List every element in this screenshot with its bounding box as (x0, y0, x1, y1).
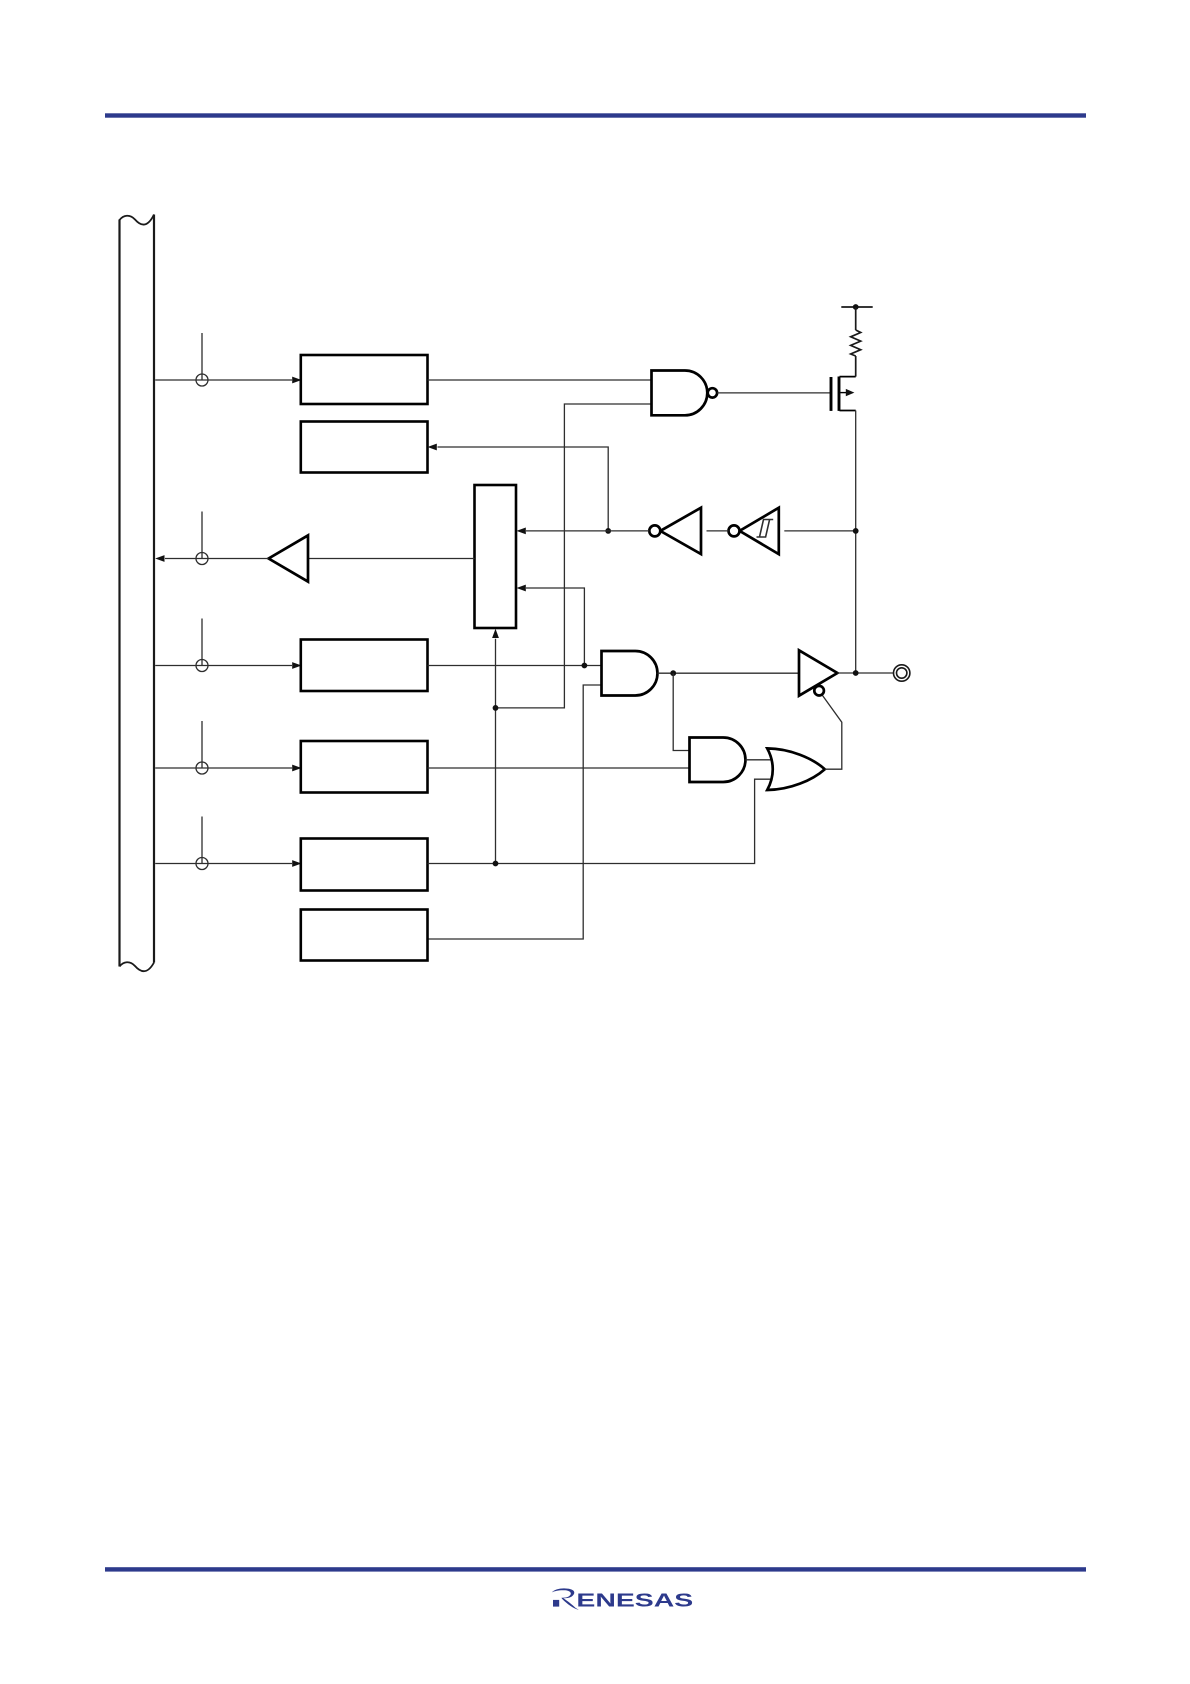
wire: bus to register 4 (155, 767, 292, 769)
wire: register 5 branch up to multiplexer bottom (495, 639, 497, 864)
register 5 (301, 839, 428, 891)
wire: register 5 output to OR gate lower input (428, 779, 773, 863)
junction: AND 1 output branch (670, 670, 676, 676)
wire: AND 2 output to OR gate (746, 759, 773, 761)
Schmitt trigger inverter (729, 508, 779, 554)
wire: bus to register 3 (155, 665, 292, 667)
junction: inverter output / register 2 branch (605, 528, 611, 534)
AND gate 1 (602, 651, 658, 696)
read buffer (269, 535, 308, 581)
wire: NAND lower input from node below (496, 404, 652, 708)
inverter (649, 508, 701, 554)
wire: feedback to register 2 (438, 447, 609, 531)
wire: bus to register 1 (155, 379, 292, 381)
wire: read buffer to bus (165, 558, 269, 560)
register 3 (301, 640, 428, 692)
NAND gate (652, 371, 718, 416)
node: bus tap 1 (196, 333, 208, 386)
junction: register 5 output branch (493, 861, 499, 867)
junction: NAND feed branch (493, 705, 499, 711)
I/O pin pad (894, 665, 910, 681)
multiplexer (475, 485, 517, 628)
register 4 (301, 741, 428, 793)
wire: AND 1 output down to AND gate 2 (673, 673, 689, 750)
junction: pin feedback branch (853, 528, 859, 534)
wire: OR output to output buffer enable (822, 695, 842, 770)
register 1 (301, 355, 428, 404)
power rail (841, 306, 872, 308)
wire: NAND output to MOSFET gate (717, 392, 830, 394)
wire: bus to register 5 (155, 863, 292, 865)
register 2 (301, 422, 428, 473)
resistor (pull-up) (851, 330, 861, 356)
wire: AND 1 output to output buffer (658, 672, 800, 674)
Renesas logo (552, 1588, 693, 1610)
register 6 (301, 910, 428, 961)
transistor Q1 (pull-up MOS) (831, 377, 856, 411)
wire: MOSFET source down to pin line (855, 411, 857, 674)
wire: rail to resistor (855, 307, 857, 330)
junction: pin line (853, 670, 859, 676)
wire: register 3 node up to multiplexer input 2 (526, 588, 584, 666)
wire: resistor to MOSFET drain (855, 356, 857, 377)
wire: pin line to Schmitt trigger input (784, 530, 855, 532)
wire: multiplexer output to read buffer (308, 558, 475, 560)
wire: Schmitt to inverter (707, 530, 729, 532)
wire: inverter output to multiplexer input 1 (526, 530, 649, 532)
node: bus tap 4 (196, 721, 208, 774)
AND gate 2 (690, 738, 746, 783)
junction: power rail (853, 304, 859, 310)
svg-text:ENESAS: ENESAS (576, 1589, 693, 1610)
OR gate (767, 748, 825, 790)
hysteresis mark (757, 520, 774, 538)
node: bus tap 2 (196, 512, 208, 565)
footer rule (105, 1567, 1086, 1571)
node: bus tap 5 (196, 817, 208, 870)
junction: register 3 output branch (582, 663, 588, 669)
internal data bus (120, 215, 155, 972)
wire: register 3 output to AND gate 1 (428, 665, 602, 667)
node: bus tap 3 (196, 619, 208, 672)
wire: output buffer to pin (837, 672, 893, 674)
wire: register 4 output to AND gate 2 (428, 767, 690, 769)
wire: register 6 output up to AND gate 1 lower input (428, 685, 602, 939)
output buffer (799, 650, 837, 695)
wire: register 1 output to NAND gate (428, 379, 652, 381)
header rule (105, 113, 1086, 117)
